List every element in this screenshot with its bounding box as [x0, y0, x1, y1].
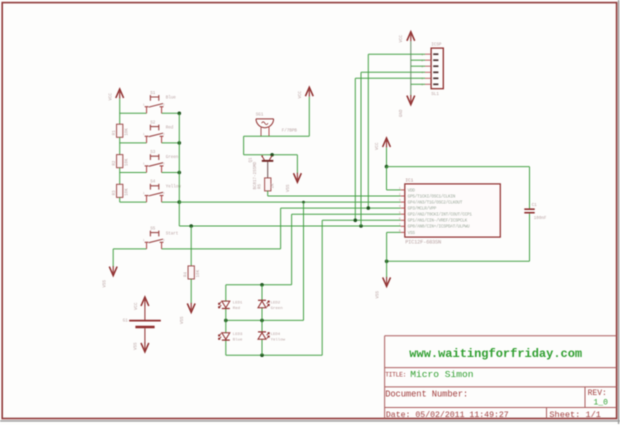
svg-text:www.waitingforfriday.com: www.waitingforfriday.com — [409, 347, 582, 361]
switch S4 Yellow — [145, 184, 164, 202]
supply VSS (speaker driver) — [294, 173, 302, 182]
supply VSS (below R4) — [187, 303, 195, 312]
resistor R5 1K — [265, 178, 271, 191]
IC1 pin GP0/AN0/CIN+/ICSPDAT/ULPWU — [401, 225, 405, 227]
junction PGC/GP1 — [354, 219, 358, 223]
wire emitter-side down to VSS — [296, 155, 298, 174]
switch S1 Blue — [145, 95, 164, 113]
wire LED bottom rail — [226, 354, 322, 356]
svg-text:GP0/AN0/CIN+/ICSPDAT/ULPWU: GP0/AN0/CIN+/ICSPDAT/ULPWU — [408, 225, 470, 230]
wire start-left down — [112, 249, 114, 267]
battery G1 minus plate — [135, 326, 154, 329]
svg-text:GP5/T1CKI/OSC1/CLKIN: GP5/T1CKI/OSC1/CLKIN — [408, 194, 456, 199]
svg-text:BC817-25SMD: BC817-25SMD — [254, 161, 258, 189]
switch S2 Red — [145, 125, 164, 143]
wire ICSP pin4 — [361, 71, 425, 73]
svg-text:100nF: 100nF — [534, 217, 547, 221]
svg-text:GP3/MCLR/VPP: GP3/MCLR/VPP — [408, 207, 437, 212]
svg-text:R1: R1 — [113, 130, 117, 136]
wire ICSP pin6 — [411, 83, 425, 85]
LED3 — [218, 333, 229, 340]
svg-text:Micro Simon: Micro Simon — [410, 369, 473, 380]
wire sense column — [178, 113, 180, 226]
wire GP3 row — [281, 207, 401, 209]
wire R4 column — [190, 226, 192, 266]
svg-text:VSS: VSS — [287, 184, 291, 192]
svg-text:Blue: Blue — [166, 96, 177, 101]
wire sense to PIC GP0 — [179, 225, 400, 227]
battery G1 plus plate — [129, 320, 161, 322]
LED1 — [218, 301, 229, 308]
IC1 pin VSS — [401, 231, 405, 233]
supply GND (ICSP) — [407, 96, 415, 105]
svg-text:R5: R5 — [259, 183, 263, 189]
wire R1 to row2 — [119, 137, 121, 154]
wire row4 to PIC GP4 — [179, 201, 400, 203]
LED2 — [258, 300, 269, 307]
wire transistor row — [244, 154, 298, 156]
battery G1 top lead — [144, 307, 146, 320]
wire C1 bottom to VSS row — [529, 214, 531, 262]
svg-text:VSS: VSS — [408, 231, 416, 236]
svg-text:Green: Green — [166, 156, 179, 160]
supply VSS (PIC) — [383, 277, 391, 286]
supply VSS (battery) — [141, 343, 149, 352]
svg-text:1K: 1K — [271, 183, 275, 189]
wire top rail riser to GP2 — [291, 214, 293, 285]
svg-text:TITLE:: TITLE: — [385, 371, 406, 378]
svg-text:VCC: VCC — [135, 302, 139, 310]
wire bottom rail riser to GP1 — [321, 220, 323, 355]
svg-text:VCC: VCC — [299, 90, 303, 98]
svg-text:S2: S2 — [150, 121, 156, 125]
switch S5 Start — [145, 231, 164, 249]
wire speaker row — [244, 135, 310, 137]
svg-text:REV:: REV: — [588, 389, 607, 398]
svg-text:10K: 10K — [197, 269, 201, 277]
wire VCC to row1 — [119, 99, 121, 125]
junction VSS net — [385, 260, 389, 264]
resistor R3 10K — [117, 184, 123, 197]
wire GP2 row — [292, 213, 401, 215]
wire speaker right riser to VCC — [308, 97, 310, 136]
connector pin 6 — [433, 83, 438, 85]
wire VDD to C1 top — [387, 166, 530, 168]
wire LED mid rail — [226, 319, 304, 321]
connector pin 3 — [433, 65, 438, 67]
junction row2/sense column — [178, 141, 182, 145]
svg-text:10K: 10K — [125, 188, 129, 196]
wire R3 to row4 — [119, 197, 121, 202]
speaker SG1 — [256, 119, 274, 136]
battery G1 bottom lead — [144, 328, 146, 343]
svg-text:GND: GND — [400, 109, 404, 117]
svg-text:VSS: VSS — [103, 279, 107, 287]
IC1 pin VDD — [401, 189, 405, 191]
wire VDD to pin — [387, 189, 401, 191]
wire row4 left segment — [120, 201, 147, 203]
svg-text:GP4/AN3/T1G/OSC2/CLKOUT: GP4/AN3/T1G/OSC2/CLKOUT — [408, 201, 463, 206]
wire speaker left down — [243, 136, 245, 155]
wire VDD down — [386, 167, 388, 190]
switch S3 Green — [145, 154, 164, 172]
supply VSS (start button) — [109, 267, 117, 276]
IC1 pin GP5/T1CKI/OSC1/CLKIN — [401, 195, 405, 197]
svg-text:R3: R3 — [113, 190, 117, 196]
wire ICSP supply vertical — [410, 41, 412, 96]
svg-text:VSS: VSS — [134, 342, 138, 350]
svg-text:R4: R4 — [184, 271, 188, 277]
supply VCC (speaker) — [305, 87, 313, 96]
supply VCC (ICSP) — [407, 32, 415, 41]
wire VSS row — [387, 260, 530, 262]
wire ICSP pin1 — [368, 53, 425, 55]
svg-text:Start: Start — [166, 232, 179, 236]
svg-text:VSS: VSS — [376, 290, 380, 298]
svg-text:GP2/AN2/T0CKI/INT/COUT/CCP1: GP2/AN2/T0CKI/INT/COUT/CCP1 — [408, 213, 473, 218]
wire mid rail riser to GP4 — [303, 202, 305, 320]
svg-text:Blue: Blue — [233, 338, 243, 343]
svg-text:10K: 10K — [125, 158, 129, 166]
junction collector — [270, 153, 274, 157]
svg-text:F/7BPB: F/7BPB — [282, 129, 298, 134]
svg-text:Date: 05/02/2011 11:49:27: Date: 05/02/2011 11:49:27 — [386, 410, 509, 420]
svg-text:GP1/AN1/CIN-/VREF/ICSPCLK: GP1/AN1/CIN-/VREF/ICSPCLK — [408, 219, 468, 224]
junction mid rail middle — [260, 319, 264, 323]
resistor R2 10K — [117, 155, 123, 168]
wire row2 left segment — [120, 142, 147, 144]
image edge right — [618, 0, 620, 424]
wire PGD vertical to GP0 — [360, 72, 362, 226]
junction VDD net — [385, 165, 389, 169]
wire ICSP pin5 — [355, 77, 425, 79]
wire row3 right segment — [162, 172, 180, 174]
connector pin 1 — [433, 53, 438, 55]
IC1 pin GP3/MCLR/VPP — [401, 207, 405, 209]
wire LED3 leads — [225, 320, 227, 332]
svg-text:G1: G1 — [123, 320, 129, 324]
svg-text:Green: Green — [271, 306, 284, 311]
junction R4 tap — [189, 224, 193, 228]
wire R4 to VSS — [190, 279, 192, 304]
wire VCC to VDD junction — [386, 148, 388, 167]
wire PGC vertical to GP1 — [354, 78, 356, 220]
svg-text:IC1: IC1 — [405, 177, 413, 183]
svg-text:S3: S3 — [150, 151, 156, 155]
wire row2 right segment — [162, 142, 180, 144]
svg-text:Q1: Q1 — [250, 157, 254, 163]
svg-text:LED4: LED4 — [271, 333, 281, 337]
connector pin 2 — [433, 59, 438, 61]
title block — [385, 335, 617, 337]
svg-text:10K: 10K — [125, 128, 129, 136]
wire LED4 leads — [261, 320, 263, 332]
svg-text:LED2: LED2 — [271, 302, 281, 306]
wire R5 to GP5 — [267, 191, 269, 196]
junction top rail — [260, 283, 264, 287]
svg-text:S5: S5 — [150, 227, 156, 231]
wire row3 left segment — [120, 172, 147, 174]
connector pin 4 — [433, 71, 438, 73]
IC1 pin GP2/AN2/T0CKI/INT/COUT/CCP1 — [401, 213, 405, 215]
image edge bottom — [0, 420, 620, 422]
supply VCC (PIC VDD) — [383, 138, 391, 147]
resistor R1 10K — [117, 124, 123, 137]
svg-text:PIC12F-683SN: PIC12F-683SN — [405, 240, 441, 246]
junction VPP/GP3 — [367, 206, 371, 210]
wire VSS to arrow — [386, 261, 388, 278]
svg-text:1_0: 1_0 — [594, 398, 609, 407]
battery G1 supply VCC arrow — [141, 297, 149, 306]
IC1 pin GP1/AN1/CIN-/VREF/ICSPCLK — [401, 219, 405, 221]
svg-text:Sheet: 1/1: Sheet: 1/1 — [549, 410, 601, 420]
wire row1 right segment — [162, 112, 180, 114]
transistor Q1 BC817-25SMD — [261, 155, 273, 178]
junction GP4/LED mid riser — [302, 201, 305, 204]
svg-text:ICSP: ICSP — [431, 43, 442, 47]
svg-text:VDD: VDD — [408, 188, 416, 193]
svg-text:Yellow: Yellow — [271, 338, 286, 343]
connector pin 5 — [433, 77, 438, 79]
svg-text:SG1: SG1 — [256, 113, 264, 117]
IC1 pin GP4/AN3/T1G/OSC2/CLKOUT — [401, 201, 405, 203]
wire LED1 leads — [225, 285, 227, 301]
junction bottom rail — [260, 353, 264, 357]
wire row1 left segment — [120, 112, 147, 114]
wire row4 right segment — [162, 201, 180, 203]
op IC1 PIC12F-683SN box — [405, 184, 501, 237]
svg-text:VCC: VCC — [400, 34, 404, 42]
wire start row right — [162, 248, 281, 250]
svg-text:S1: S1 — [150, 92, 156, 96]
junction row1/sense column — [178, 112, 182, 116]
supply VCC (buttons ladder) — [116, 89, 124, 98]
LED4 — [258, 332, 269, 339]
svg-text:LED1: LED1 — [233, 302, 243, 306]
wire GP1 row — [322, 219, 401, 221]
wire ICSP pin3 — [411, 65, 425, 67]
wire start row left — [113, 248, 146, 250]
junction ICSP PGD / GP0 — [359, 224, 363, 228]
wire VPP vertical to GP3 — [367, 54, 369, 208]
capacitor C1 100nF — [524, 208, 534, 210]
svg-text:Red: Red — [166, 125, 174, 130]
svg-text:VCC: VCC — [376, 142, 380, 150]
wire PIC VSS pin down — [387, 231, 401, 233]
junction row3/sense column — [178, 171, 182, 175]
resistor R4 10K — [188, 266, 194, 279]
connector SL1 ICSP box — [431, 48, 443, 89]
wire start riser to GP3 — [280, 208, 282, 249]
svg-text:VCC: VCC — [110, 92, 114, 100]
wire LED top rail — [226, 284, 292, 286]
svg-text:LED3: LED3 — [233, 333, 243, 337]
svg-text:SL1: SL1 — [431, 93, 439, 97]
wire ICSP pin2 — [411, 59, 425, 61]
svg-text:R2: R2 — [113, 160, 117, 166]
junction mid rail left — [224, 319, 228, 323]
svg-text:C1: C1 — [532, 204, 538, 208]
svg-text:Red: Red — [233, 306, 241, 311]
svg-text:Document Number:: Document Number: — [385, 389, 468, 399]
svg-text:S4: S4 — [150, 181, 156, 185]
wire R2 to row3 — [119, 168, 121, 185]
wire LED2 leads — [261, 285, 263, 301]
svg-text:VSS: VSS — [181, 316, 185, 324]
junction row4/sense column — [178, 200, 182, 204]
